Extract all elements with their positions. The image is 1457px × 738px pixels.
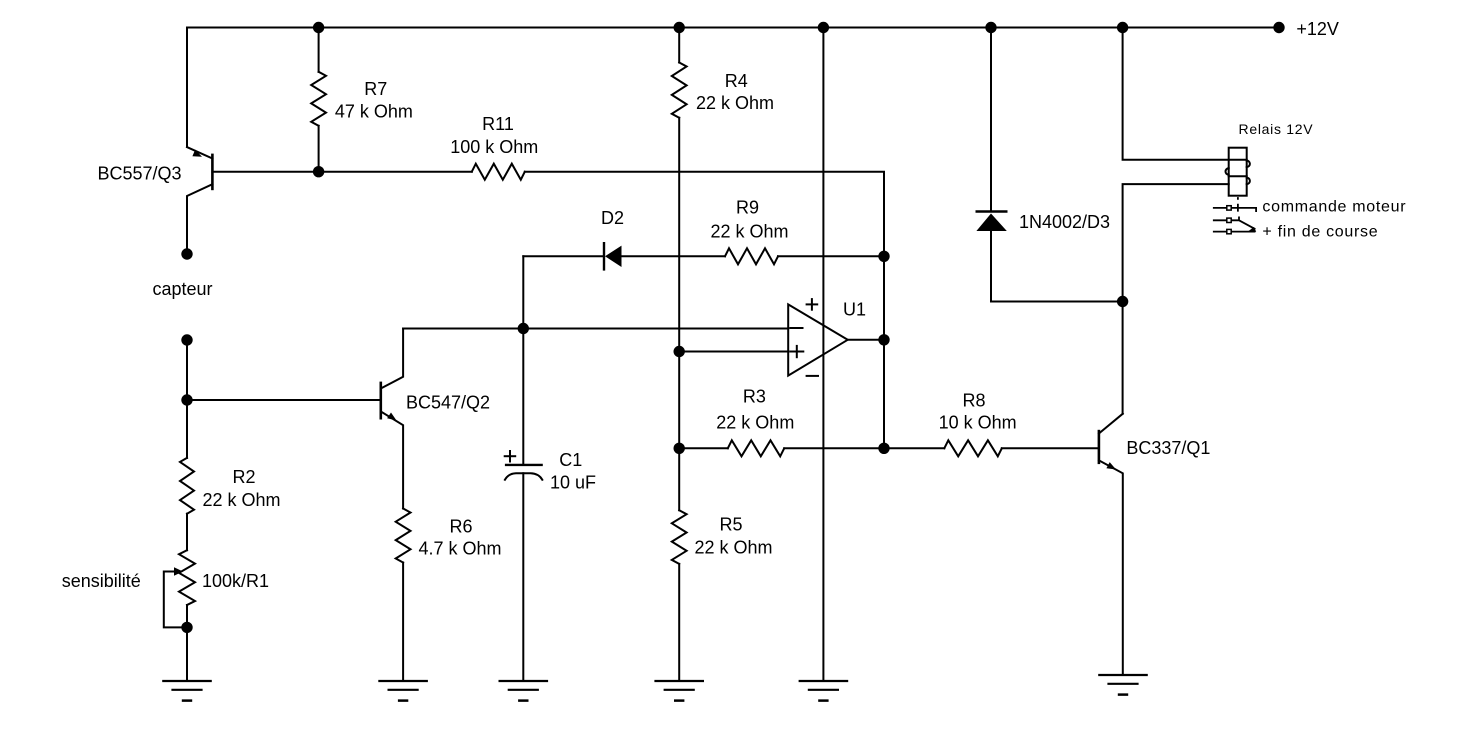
svg-text:D2: D2	[601, 208, 624, 228]
svg-text:R7: R7	[364, 79, 387, 99]
svg-text:R2: R2	[232, 467, 255, 487]
svg-text:capteur: capteur	[152, 279, 212, 299]
svg-text:22 k Ohm: 22 k Ohm	[710, 222, 788, 242]
svg-text:C1: C1	[559, 450, 582, 470]
svg-text:22 k Ohm: 22 k Ohm	[202, 490, 280, 510]
svg-text:100k/R1: 100k/R1	[202, 571, 269, 591]
svg-text:BC337/Q1: BC337/Q1	[1126, 438, 1210, 458]
svg-text:10 k Ohm: 10 k Ohm	[939, 413, 1017, 433]
svg-text:4.7 k Ohm: 4.7 k Ohm	[418, 538, 501, 558]
svg-text:U1: U1	[843, 299, 866, 319]
svg-text:+ fin de course: + fin de course	[1262, 223, 1378, 240]
svg-text:R11: R11	[482, 114, 514, 134]
svg-text:R4: R4	[725, 71, 748, 91]
svg-text:1N4002/D3: 1N4002/D3	[1019, 212, 1110, 232]
svg-text:commande moteur: commande moteur	[1262, 199, 1406, 216]
svg-text:R8: R8	[962, 390, 985, 410]
svg-text:10 uF: 10 uF	[550, 472, 596, 492]
svg-text:22 k Ohm: 22 k Ohm	[696, 93, 774, 113]
svg-text:22 k Ohm: 22 k Ohm	[694, 538, 772, 558]
svg-text:R5: R5	[719, 515, 742, 535]
svg-text:R9: R9	[736, 198, 759, 218]
svg-text:R6: R6	[449, 516, 472, 536]
svg-text:BC557/Q3: BC557/Q3	[98, 164, 182, 184]
svg-text:Relais 12V: Relais 12V	[1239, 121, 1314, 137]
svg-text:100 k Ohm: 100 k Ohm	[450, 137, 538, 157]
svg-text:sensibilité: sensibilité	[62, 571, 141, 591]
svg-text:BC547/Q2: BC547/Q2	[406, 392, 490, 412]
svg-text:47 k Ohm: 47 k Ohm	[335, 102, 413, 122]
svg-text:22 k Ohm: 22 k Ohm	[716, 413, 794, 433]
svg-text:R3: R3	[743, 387, 766, 407]
svg-text:+12V: +12V	[1296, 19, 1339, 39]
